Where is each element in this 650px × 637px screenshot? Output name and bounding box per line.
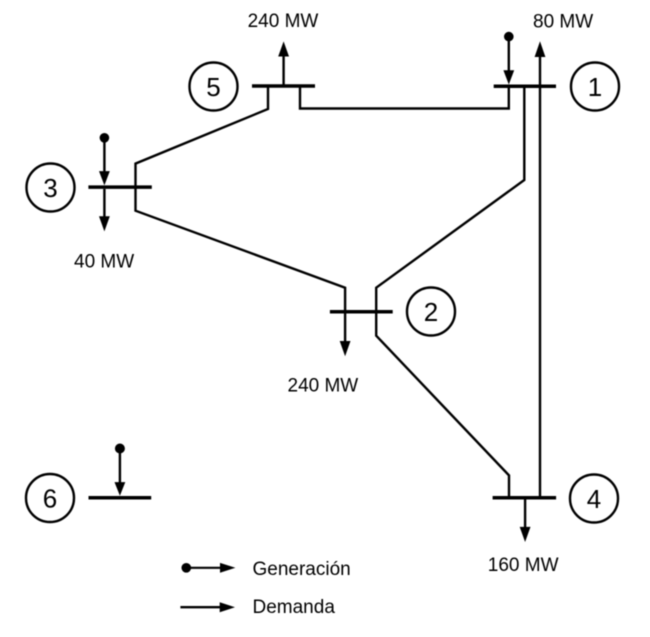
svg-text:240 MW: 240 MW — [248, 11, 319, 32]
wire 3-2 — [136, 186, 346, 313]
bus 3 bar — [88, 185, 151, 189]
wire 5-3 — [136, 85, 269, 190]
svg-text:5: 5 — [206, 72, 220, 102]
bus 5 bar — [252, 84, 315, 88]
wire 5-1 — [300, 85, 509, 109]
wire 1-4 — [539, 86, 541, 496]
legend demand symbol — [180, 602, 235, 612]
svg-text:1: 1 — [588, 72, 602, 102]
wire 2-4 — [376, 310, 509, 499]
node 1 — [571, 63, 619, 111]
svg-text:40 MW: 40 MW — [74, 252, 134, 273]
demand arrow bus 3 (40 MW down) — [99, 189, 110, 231]
node 5 — [190, 63, 238, 111]
demand arrow bus 4 (160 MW down) — [520, 499, 531, 542]
svg-text:240 MW: 240 MW — [288, 375, 359, 396]
svg-text:80 MW: 80 MW — [533, 11, 593, 32]
node 3 — [27, 164, 75, 212]
node 2 — [407, 288, 455, 336]
wire 1-2 — [376, 88, 524, 313]
bus 4 bar — [493, 496, 556, 500]
demand arrow bus 5 (240 MW up) — [278, 41, 289, 84]
bus 1 bar — [494, 85, 556, 89]
svg-text:4: 4 — [587, 484, 601, 514]
node 6 — [26, 474, 74, 522]
generator at bus 6 — [115, 444, 126, 496]
svg-text:160 MW: 160 MW — [488, 555, 559, 576]
svg-text:Generación: Generación — [253, 559, 351, 580]
bus 6 bar — [89, 496, 152, 500]
legend generation symbol — [181, 563, 235, 573]
svg-text:2: 2 — [424, 297, 438, 327]
generator at bus 3 — [99, 133, 110, 185]
bus 2 bar — [330, 310, 393, 314]
svg-text:Demanda: Demanda — [253, 597, 336, 618]
node 4 — [570, 475, 618, 523]
demand arrow bus 2 (240 MW down) — [340, 313, 351, 356]
svg-text:3: 3 — [43, 173, 57, 203]
svg-text:6: 6 — [43, 483, 57, 513]
demand arrow bus 1 (80 MW up) — [535, 41, 546, 88]
generator at bus 1 — [503, 32, 514, 85]
